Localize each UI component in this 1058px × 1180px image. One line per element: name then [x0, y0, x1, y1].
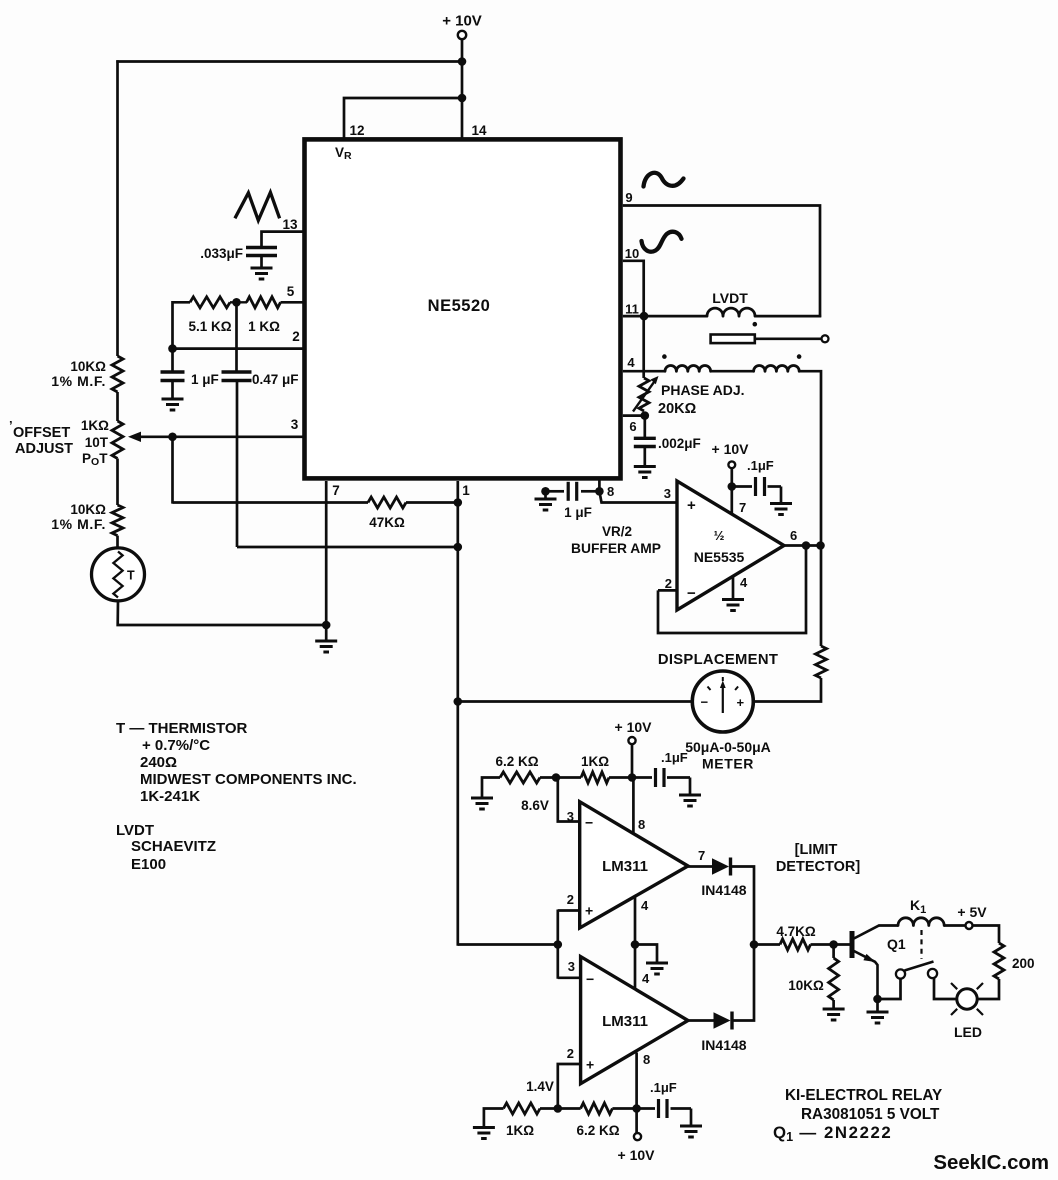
- LVDT note caption: [116, 822, 216, 873]
- relay contact right terminal: [928, 969, 937, 978]
- arrowhead of offset adjust wiper: [128, 432, 141, 442]
- node pin 6 junction: [641, 411, 650, 420]
- wire between secondary coils: [711, 370, 754, 373]
- LVDT movable core: [711, 335, 755, 344]
- svg-text:10KΩ: 10KΩ: [70, 359, 106, 374]
- thermistor T: [92, 548, 145, 601]
- ground below C2: [162, 399, 184, 410]
- wire pin 2: [173, 347, 305, 350]
- wire pin 3 to offset-adjust wiper arrow: [139, 435, 304, 438]
- U4 pin 8 stub: [635, 1053, 638, 1109]
- svg-text:+: +: [585, 903, 593, 919]
- U3 pin 4 stub: [634, 897, 637, 945]
- resistor R4 10K-ohm 1% M.F. lower: [51, 502, 123, 536]
- capacitor C4 .002uF: [634, 436, 701, 451]
- svg-text:7: 7: [698, 848, 705, 863]
- wire primary to right loop: [755, 315, 821, 318]
- [LIMIT DETECTOR] caption: [776, 842, 860, 875]
- node lower feed junction: [454, 543, 463, 552]
- node pin 3 junction: [168, 433, 177, 442]
- potentiometer phase adjust 20K-ohm: [633, 376, 659, 412]
- node R7/R8 junction 8.6V: [552, 773, 561, 782]
- svg-text:T — THERMISTOR: T — THERMISTOR: [116, 720, 248, 737]
- wire R3 to pot: [116, 392, 119, 421]
- svg-text:1 KΩ: 1 KΩ: [248, 319, 280, 334]
- svg-text:−: −: [687, 585, 696, 602]
- svg-text:LVDT: LVDT: [712, 290, 748, 306]
- wire pin 7 vertical to ground junction: [325, 481, 328, 625]
- U3 pin 2 wire: [558, 909, 580, 912]
- LVDT polarity dot secondary B: [797, 354, 802, 359]
- wire pin 6: [623, 414, 645, 417]
- wire down to capacitor C2: [171, 349, 174, 372]
- svg-text:.1μF: .1μF: [650, 1080, 677, 1095]
- svg-text:12: 12: [349, 123, 364, 138]
- svg-text:4: 4: [627, 355, 635, 370]
- node limit detector junction: [750, 940, 759, 949]
- svg-text:3: 3: [291, 417, 299, 432]
- ground left of C5: [535, 499, 557, 510]
- LVDT polarity dot secondary A: [662, 354, 667, 359]
- ground below C1: [251, 268, 273, 279]
- node comparator input junction: [554, 940, 563, 949]
- wire pin6 node to C4: [643, 416, 646, 439]
- svg-text:200: 200: [1012, 956, 1035, 971]
- wire D2 up to limit node: [734, 945, 755, 1021]
- svg-text:2: 2: [567, 892, 574, 907]
- svg-text:10KΩ: 10KΩ: [70, 502, 106, 517]
- svg-text:11: 11: [625, 302, 639, 317]
- resistor R9 1K-ohm (bottom): [504, 1103, 541, 1138]
- wire LED to relay contact: [934, 978, 957, 999]
- core actuating rod with end circle: [755, 335, 829, 342]
- sine symbol at pin 9: [644, 173, 684, 187]
- U4 pin 2 wire: [558, 1064, 581, 1109]
- svg-text:IN4148: IN4148: [701, 882, 746, 898]
- meter M1 displacement meter: [692, 671, 753, 732]
- thermistor note caption: [116, 720, 357, 805]
- potentiometer offset adjust 1K 10T: [81, 418, 123, 468]
- svg-text:6.2 KΩ: 6.2 KΩ: [495, 754, 538, 769]
- node C5 ground junction: [541, 487, 550, 496]
- svg-text:20KΩ: 20KΩ: [658, 401, 697, 417]
- svg-text:13: 13: [282, 217, 298, 232]
- wire C3 down to lower feed line: [236, 381, 239, 548]
- node top-rail junction: [458, 57, 467, 66]
- wire pin 10 down to pin 11 node: [623, 261, 644, 316]
- wire junction to ground: [325, 625, 328, 641]
- U4 pin 3 wire: [558, 976, 581, 979]
- svg-text:LM311: LM311: [602, 858, 648, 875]
- resistor R7 6.2 K-ohm: [495, 754, 540, 783]
- node pin 8 junction: [595, 487, 604, 496]
- offset adjust label: [9, 418, 73, 457]
- svg-text:LM311: LM311: [602, 1013, 648, 1030]
- wire R13 down to LED: [978, 979, 1000, 999]
- wire C7 to ground: [689, 778, 692, 796]
- ground left of 6.2K: [471, 798, 493, 809]
- node emitter junction: [873, 995, 882, 1004]
- wire ground to 1K: [484, 1109, 504, 1128]
- wire left rail vertical down to 10K resistor: [116, 60, 119, 356]
- resistor R10 6.2 K-ohm (bottom): [576, 1103, 619, 1138]
- wire R7 to R8: [540, 776, 581, 779]
- wire coil to +5V terminal: [944, 924, 965, 927]
- svg-text:8: 8: [607, 484, 614, 499]
- wire pin-3 node down to pin-7 feed line: [171, 437, 174, 504]
- svg-text:1KΩ: 1KΩ: [506, 1123, 534, 1138]
- wire R12 to ground: [832, 1000, 835, 1009]
- ground right of C7: [679, 795, 701, 806]
- node meter feed junction: [454, 697, 463, 706]
- wire pin 11: [623, 315, 707, 318]
- svg-text:−: −: [701, 695, 709, 710]
- svg-text:[LIMIT: [LIMIT: [795, 842, 838, 858]
- triangle-wave symbol at pin 13: [235, 192, 280, 220]
- wire C6 to ground: [780, 487, 783, 504]
- svg-text:Q1: Q1: [887, 936, 906, 952]
- capacitor C1 .033uF: [200, 246, 277, 261]
- svg-text:1% M.F.: 1% M.F.: [51, 373, 106, 389]
- svg-text:½: ½: [714, 528, 725, 543]
- svg-text:−: −: [585, 815, 593, 831]
- wire C2 to ground: [171, 381, 174, 400]
- resistor R13 200: [994, 943, 1035, 979]
- wire comparator input link vertical: [556, 910, 559, 979]
- svg-text:47KΩ: 47KΩ: [369, 515, 405, 530]
- svg-text:8: 8: [638, 817, 645, 832]
- +10V terminal for op amp: [712, 441, 750, 468]
- LVDT polarity dot primary: [753, 322, 758, 327]
- svg-text:MIDWEST COMPONENTS INC.: MIDWEST COMPONENTS INC.: [140, 771, 357, 788]
- svg-text:1% M.F.: 1% M.F.: [51, 516, 106, 532]
- wire 8.6V node to comparator minus input: [558, 778, 580, 822]
- svg-text:1KΩ: 1KΩ: [81, 418, 109, 433]
- svg-text:KI-ELECTROL RELAY: KI-ELECTROL RELAY: [785, 1087, 942, 1104]
- svg-text:10KΩ: 10KΩ: [788, 978, 824, 993]
- U4 pin 4 stub: [634, 945, 637, 989]
- resistor R11 4.7K-ohm: [776, 924, 816, 950]
- U3 pin 8 stub: [632, 778, 635, 834]
- capacitor C6 .1uF (op amp): [732, 458, 781, 496]
- resistor R8 1K-ohm: [581, 754, 609, 783]
- node 1.4V junction: [554, 1104, 563, 1113]
- svg-text:2: 2: [665, 576, 672, 591]
- U4 output wire: [688, 1019, 714, 1022]
- resistor R6 (meter series): [816, 646, 827, 678]
- wire thermistor bottom to ground run: [118, 601, 327, 625]
- op-amp output wire pin 6: [784, 544, 821, 547]
- op-amp pin 2 wire: [658, 589, 677, 592]
- svg-text:+ 10V: + 10V: [615, 719, 653, 735]
- wire R10 to supply node: [612, 1107, 636, 1110]
- +10V terminal (comparators): [615, 719, 653, 744]
- svg-text:6: 6: [629, 419, 636, 434]
- relay actuation dashed link: [920, 930, 922, 959]
- ground below emitter: [867, 1012, 889, 1023]
- wire D1 to limit node: [732, 867, 754, 946]
- op-amp U2 labels: [687, 497, 745, 602]
- wire top rail horizontal to left rail: [116, 60, 463, 63]
- wire pin 1 rail vertical: [456, 481, 459, 946]
- wire pin 8 to op-amp + input: [599, 491, 676, 502]
- node base junction: [829, 940, 838, 949]
- wire 0.47uF column from R1/R2 node: [235, 302, 238, 372]
- ground below C4: [634, 467, 656, 478]
- resistor R3 10K-ohm 1% M.F. upper: [51, 356, 123, 392]
- wire +10V down to top rail junction: [461, 39, 464, 62]
- node output to meter-branch junction: [816, 541, 825, 550]
- ground shared comparators: [646, 963, 668, 974]
- svg-text:50μA-0-50μA: 50μA-0-50μA: [685, 739, 771, 755]
- resistor R1 5.1 K-ohm: [188, 297, 231, 334]
- LED DS1: [951, 983, 983, 1040]
- svg-text:3: 3: [567, 809, 574, 824]
- node comparator supply junction: [628, 773, 637, 782]
- sine symbol at pin 10: [642, 232, 682, 252]
- svg-text:+: +: [737, 695, 745, 710]
- wire pot to R4: [116, 459, 119, 506]
- wire R9 to R10: [540, 1107, 581, 1110]
- svg-text:2: 2: [292, 329, 300, 344]
- svg-text:5: 5: [287, 284, 295, 299]
- wire R1 left end down to pin 2 line: [173, 302, 191, 349]
- node pin-7 ground junction: [322, 621, 331, 630]
- svg-text:1K-241K: 1K-241K: [140, 788, 200, 805]
- diode D1 IN4148: [701, 858, 746, 899]
- ground below R12: [823, 1009, 845, 1020]
- svg-text:VR/2: VR/2: [602, 524, 632, 539]
- capacitor C7 .1uF upper: [632, 750, 690, 787]
- svg-text:7: 7: [332, 483, 340, 498]
- comparator U4 LM311 lower triangle: [581, 957, 688, 1084]
- wire 47K to pin 1 node: [406, 501, 458, 504]
- capacitor C5 1uF (pin 8 decoupling): [549, 482, 596, 520]
- relay contact left terminal: [896, 969, 905, 978]
- svg-text:1.4V: 1.4V: [526, 1079, 554, 1094]
- wire feed line to 47K: [173, 501, 369, 504]
- svg-text:BUFFER AMP: BUFFER AMP: [571, 541, 661, 556]
- capacitor C2 1uF: [161, 372, 219, 387]
- svg-text:8.6V: 8.6V: [521, 798, 549, 813]
- VR/2 buffer amp caption: [571, 524, 661, 556]
- svg-text:.002μF: .002μF: [658, 436, 701, 451]
- resistor R5 47K-ohm: [368, 497, 406, 530]
- node bottom supply junction: [632, 1104, 641, 1113]
- wire pin 13 to capacitor C1: [262, 232, 305, 247]
- svg-text:DETECTOR]: DETECTOR]: [776, 859, 860, 875]
- wire +5V to 200 resistor: [972, 926, 999, 944]
- svg-text:.1μF: .1μF: [747, 458, 774, 473]
- transistor Q1 2N2222: [852, 925, 906, 999]
- wire ground to 6.2K: [482, 778, 500, 799]
- wire left contact down to emitter node: [878, 979, 901, 999]
- relay K1 coil: [898, 918, 944, 926]
- svg-text:RA3081051 5 VOLT: RA3081051 5 VOLT: [801, 1106, 940, 1123]
- node between R1 and R2: [232, 298, 241, 307]
- svg-text:10T: 10T: [85, 435, 109, 450]
- svg-text:NE5535: NE5535: [694, 549, 745, 565]
- svg-text:14: 14: [471, 123, 487, 138]
- resistor R2 1 K-ohm: [247, 297, 281, 334]
- svg-text:SeekIC.com: SeekIC.com: [933, 1152, 1049, 1174]
- node pin 1 / 47K junction: [454, 498, 463, 507]
- svg-text:8: 8: [643, 1052, 650, 1067]
- svg-text:+ 10V: + 10V: [712, 441, 750, 457]
- wire pin-1 rail to meter - terminal: [458, 700, 693, 703]
- node pin 2 / C2 junction: [168, 344, 177, 353]
- LVDT secondary coil B: [754, 366, 800, 372]
- svg-text:4.7KΩ: 4.7KΩ: [776, 924, 816, 939]
- node op-amp supply junction: [728, 482, 737, 491]
- ground right of C8: [680, 1126, 702, 1137]
- svg-text:PHASE ADJ.: PHASE ADJ.: [661, 382, 745, 398]
- svg-text:3: 3: [568, 959, 575, 974]
- comparator U4 labels: [586, 971, 648, 1073]
- svg-text:1 μF: 1 μF: [191, 372, 219, 387]
- svg-text:4: 4: [642, 971, 650, 986]
- svg-text:E100: E100: [131, 856, 166, 873]
- LVDT secondary coil A: [665, 366, 711, 372]
- phase adj label: [658, 382, 745, 417]
- ground left of 1K (bottom): [473, 1128, 495, 1139]
- wire emitter node to ground: [876, 999, 879, 1012]
- resistor R12 10K-ohm: [788, 958, 838, 1000]
- svg-text:ADJUST: ADJUST: [15, 441, 73, 457]
- svg-text:5.1 KΩ: 5.1 KΩ: [188, 319, 231, 334]
- svg-text:3: 3: [664, 486, 671, 501]
- svg-text:DISPLACEMENT: DISPLACEMENT: [658, 652, 778, 668]
- wire C4 to ground: [643, 447, 646, 467]
- IC U1 NE5520 body: [305, 139, 621, 478]
- svg-text:+ 5V: + 5V: [957, 904, 987, 920]
- wire ground branch: [635, 945, 657, 964]
- wire pin10/11 node down to phase pot: [642, 316, 645, 378]
- wire R4 to thermistor: [116, 536, 119, 549]
- wire pin 5: [281, 301, 305, 304]
- feedback wire output to inverting input: [658, 546, 806, 633]
- diode D2 IN4148: [701, 1012, 746, 1054]
- op-amp U2 1/2 NE5535 triangle: [677, 481, 784, 610]
- svg-text:NE5520: NE5520: [428, 297, 491, 315]
- svg-text:9: 9: [625, 190, 632, 205]
- svg-text:LVDT: LVDT: [116, 822, 154, 839]
- svg-text:T: T: [127, 569, 135, 583]
- power rail +10V terminal (top): [442, 13, 482, 40]
- svg-text:4: 4: [641, 898, 649, 913]
- wire resistor to meter + terminal: [754, 678, 821, 702]
- svg-text:4: 4: [740, 575, 748, 590]
- wire secondary to right drop: [799, 371, 821, 546]
- wire R8 to supply node: [609, 776, 632, 779]
- wire lower feed line (0.47uF to pin-1 rail): [237, 546, 458, 549]
- svg-text:+ 10V: + 10V: [618, 1147, 656, 1163]
- svg-text:IN4148: IN4148: [701, 1037, 746, 1053]
- svg-text:1 μF: 1 μF: [564, 505, 592, 520]
- ground below op-amp pin 4: [722, 600, 744, 611]
- svg-text:1KΩ: 1KΩ: [581, 754, 609, 769]
- svg-text:SCHAEVITZ: SCHAEVITZ: [131, 838, 216, 855]
- wire branch to pin 12: [344, 98, 463, 140]
- ground right of C6: [770, 504, 792, 515]
- ground below pin 7: [315, 641, 337, 652]
- svg-text:−: −: [586, 971, 594, 987]
- +5V terminal: [957, 904, 987, 929]
- wire collector to relay coil: [879, 924, 898, 927]
- meter range caption: [685, 739, 771, 772]
- svg-text:.033μF: .033μF: [200, 246, 243, 261]
- wire +10V into pin 14: [461, 62, 464, 141]
- svg-text:0.47 μF: 0.47 μF: [252, 372, 299, 387]
- svg-text:6.2 KΩ: 6.2 KΩ: [576, 1123, 619, 1138]
- svg-text:+ 0.7%/°C: + 0.7%/°C: [142, 737, 210, 754]
- node feedback junction: [802, 541, 811, 550]
- svg-text:LED: LED: [954, 1024, 982, 1040]
- capacitor C3 0.47uF: [222, 372, 299, 387]
- svg-text:METER: METER: [702, 756, 754, 772]
- wire pin 9 to right loop: [623, 206, 820, 318]
- svg-text:+ 10V: + 10V: [442, 13, 482, 30]
- comparator U3 LM311 upper triangle: [580, 802, 688, 928]
- svg-text:+: +: [586, 1057, 594, 1073]
- node pin14 branch junction: [458, 94, 467, 103]
- wire pin-1 rail feed to comparator inputs: [458, 943, 558, 946]
- capacitor C8 .1uF bottom: [637, 1080, 691, 1118]
- LVDT primary coil: [707, 308, 755, 316]
- svg-text:240Ω: 240Ω: [140, 754, 177, 771]
- svg-text:OFFSET: OFFSET: [13, 425, 70, 441]
- +10V terminal (bottom): [618, 1109, 656, 1164]
- U3 pin 7 output wire: [688, 865, 712, 868]
- svg-text:+: +: [687, 497, 696, 514]
- svg-text:6: 6: [790, 528, 797, 543]
- pin 8 stub below IC: [598, 480, 601, 491]
- op-amp pin 4 stub: [732, 576, 735, 600]
- svg-text:10: 10: [625, 246, 639, 261]
- svg-text:7: 7: [739, 500, 746, 515]
- svg-text:2: 2: [567, 1046, 574, 1061]
- svg-text:1: 1: [462, 483, 470, 498]
- wire C8 to ground: [690, 1109, 693, 1127]
- wire +10V to pin 7: [730, 468, 733, 514]
- comparator U3 labels: [585, 815, 648, 919]
- relay note caption: [773, 1087, 942, 1144]
- node pin 10/11 junction: [640, 312, 649, 321]
- wire output node down to meter resistor: [820, 546, 823, 647]
- wire +10V down to resistor line: [631, 744, 634, 777]
- relay switch blade: [905, 962, 934, 971]
- svg-text:.1μF: .1μF: [661, 750, 688, 765]
- node comparator ground junction: [631, 940, 640, 949]
- wire pin 4 to secondary coils: [623, 370, 665, 373]
- wire C1 to ground: [260, 256, 263, 269]
- wire R11 to base node: [811, 943, 850, 946]
